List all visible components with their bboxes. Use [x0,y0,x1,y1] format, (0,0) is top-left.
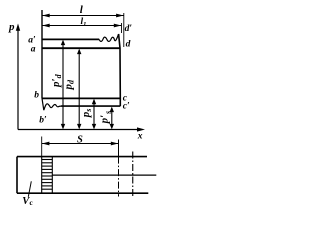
svg-text:p′s: p′s [98,111,112,125]
svg-text:d: d [126,40,131,50]
line b-c (ps level) [42,97,120,99]
left extension / expansion line a-b [41,10,43,98]
piston with hatch [42,157,53,194]
bottom spike to b' and wave [42,98,61,110]
right extension for l [123,13,125,47]
cylinder left edge [16,157,18,194]
right extension tick for l1 [121,23,123,33]
svg-text:a: a [31,44,36,54]
svg-text:d′: d′ [125,24,133,34]
svg-text:l1: l1 [81,17,87,28]
top wave to d' [99,34,118,41]
dash-dot line piston BDC right face [132,152,134,197]
svg-text:ps: ps [80,109,93,119]
pressure arrow p's [110,107,114,130]
line a-d (pd level) [42,47,120,49]
svg-text:l: l [80,4,84,16]
line b'-c' (p's level) [61,105,120,107]
pressure arrow pd [77,49,81,130]
svg-text:pd: pd [62,79,75,91]
p axis [16,24,20,130]
pressure arrow ps [92,99,96,130]
cylinder bottom edge [17,192,148,194]
dimension l line [42,14,124,18]
x axis [18,127,145,131]
piston rod line [52,174,156,176]
right edge c' to d and spike to d' [119,34,121,106]
svg-text:p′d: p′d [50,73,63,88]
line a' (p'd level) [42,38,99,40]
cylinder top edge [17,156,147,158]
svg-text:S: S [77,134,83,145]
Vc leader line [28,181,31,197]
svg-text:x: x [137,131,143,141]
svg-text:c′: c′ [123,101,130,111]
svg-text:b′: b′ [39,116,47,126]
dash-dot line piston BDC left face [118,140,120,197]
dimension S extension left [41,137,43,157]
dimension l1 line [42,24,122,28]
dimension S line [42,142,119,146]
pressure arrow p'd [61,40,65,130]
svg-text:p: p [8,21,15,33]
svg-text:Vc: Vc [22,196,33,207]
svg-text:b: b [34,91,39,101]
